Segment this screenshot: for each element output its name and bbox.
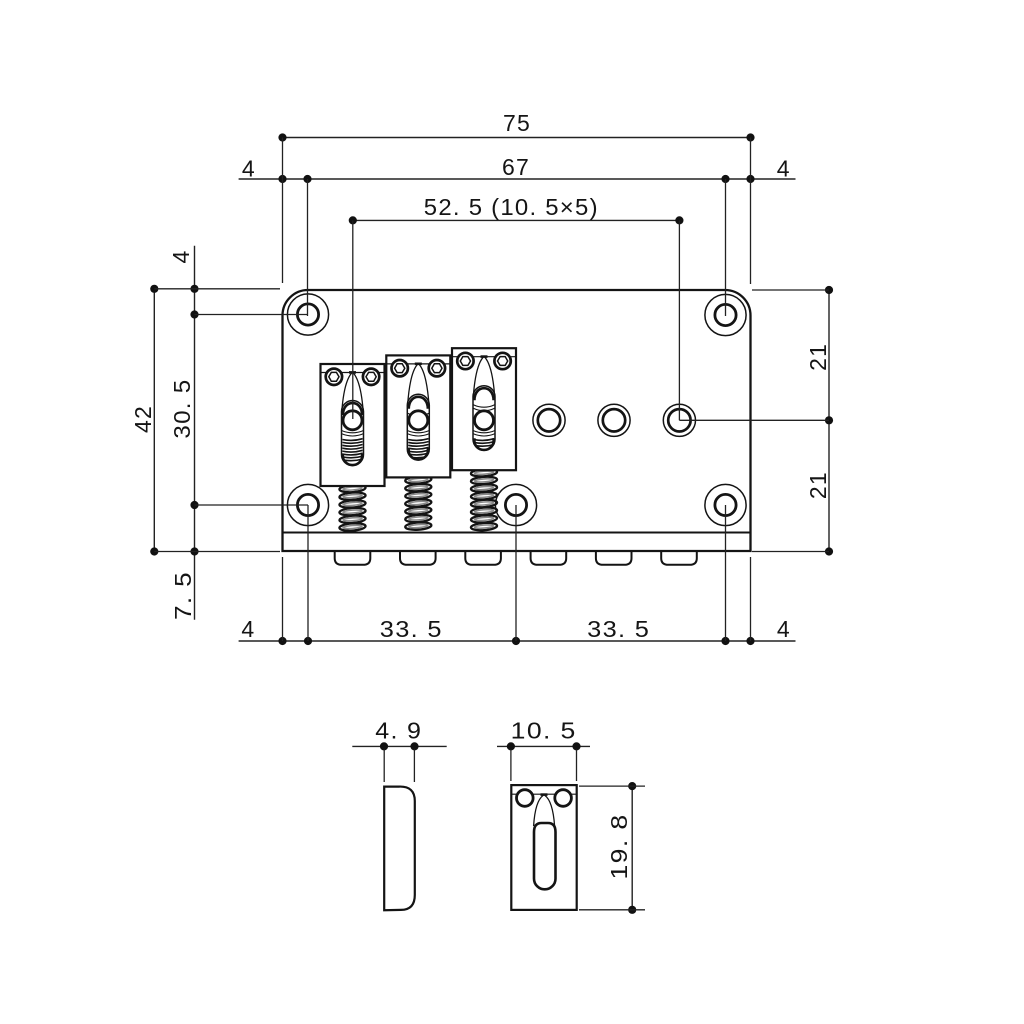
- svg-text:19. 8: 19. 8: [606, 814, 632, 880]
- dim line 4.9: [352, 745, 446, 747]
- extension hole BR down: [725, 505, 727, 641]
- string-through hole 4: [533, 404, 565, 436]
- extension string 1: [352, 220, 354, 419]
- extension hole BM down: [515, 505, 517, 641]
- stub 19.8 top: [579, 785, 645, 787]
- string-through hole 6: [663, 404, 695, 436]
- svg-text:4: 4: [777, 616, 791, 642]
- stub 19.8 bottom: [579, 909, 645, 911]
- mounting hole bottom-left: [287, 484, 328, 525]
- mounting hole top-right: [705, 294, 746, 335]
- top view inner line: [511, 793, 576, 795]
- dim line 42: [153, 289, 155, 552]
- connector hole BL: [195, 504, 309, 506]
- dim line 10.5: [497, 745, 590, 747]
- extension right edge top: [750, 138, 752, 285]
- extension top-view left: [510, 750, 512, 782]
- svg-text:4: 4: [242, 156, 256, 182]
- svg-text:4: 4: [241, 616, 255, 642]
- string-through hole 5: [598, 404, 630, 436]
- top view screw circles: [517, 790, 534, 807]
- dim line 67 with 4 offsets: [239, 178, 796, 180]
- saddle block 2: [386, 355, 450, 477]
- top view arch: [534, 795, 555, 826]
- mounting hole bottom-middle: [495, 484, 536, 525]
- saddle spring 1: [339, 484, 366, 532]
- svg-text:4: 4: [777, 156, 791, 182]
- svg-text:75: 75: [503, 110, 531, 136]
- plate bend line: [283, 532, 751, 534]
- string slot 2: [400, 552, 436, 565]
- svg-text:21: 21: [805, 471, 831, 499]
- saddle spring 2: [405, 475, 432, 530]
- extension left edge down: [282, 557, 284, 641]
- svg-text:10. 5: 10. 5: [511, 718, 577, 744]
- connector plate top-left: [154, 288, 280, 290]
- extension left edge top: [282, 138, 284, 284]
- connector plate top-right: [752, 289, 829, 291]
- string slot 6: [661, 552, 697, 565]
- svg-text:42: 42: [130, 405, 156, 433]
- saddle block 1: [321, 364, 385, 486]
- bottom dim line 4 / 33.5 / 33.5 / 4: [239, 640, 796, 642]
- dim line 52.5: [353, 219, 680, 221]
- extension side-view left: [383, 750, 385, 783]
- mounting hole top-left: [287, 294, 328, 335]
- extension hole TL: [307, 179, 309, 316]
- string slot 3: [465, 552, 501, 565]
- svg-text:7. 5: 7. 5: [170, 571, 196, 620]
- extension side-view right: [413, 750, 415, 783]
- svg-text:67: 67: [502, 154, 530, 180]
- top view arch tick: [541, 793, 548, 796]
- bridge base plate outline: [283, 290, 751, 551]
- extension hole BL down: [307, 505, 309, 641]
- string slot 4: [531, 552, 567, 565]
- string slot 1: [335, 552, 371, 565]
- extension right edge down: [750, 557, 752, 641]
- dim line 19.8: [631, 786, 633, 910]
- extension hole TR: [725, 179, 727, 316]
- saddle block 3: [452, 348, 516, 470]
- connector hole TL: [195, 314, 309, 316]
- svg-text:33. 5: 33. 5: [380, 616, 443, 642]
- saddle spring 3: [471, 468, 498, 531]
- connector plate bottom-left: [154, 551, 280, 553]
- svg-text:33. 5: 33. 5: [587, 616, 650, 642]
- dim line 75: [283, 137, 751, 139]
- svg-text:4. 9: 4. 9: [375, 718, 422, 744]
- svg-text:30. 5: 30. 5: [169, 379, 195, 439]
- detail top view of saddle: [511, 785, 576, 910]
- string slot 5: [596, 552, 632, 565]
- extension string 6: [678, 220, 680, 420]
- svg-text:4: 4: [168, 250, 194, 264]
- svg-text:52. 5 (10. 5×5): 52. 5 (10. 5×5): [424, 194, 599, 220]
- connector hole mid-right: [679, 419, 829, 421]
- connector plate bottom-right: [752, 551, 829, 553]
- extension top-view right: [576, 750, 578, 782]
- mounting hole bottom-right: [705, 484, 746, 525]
- svg-text:21: 21: [805, 343, 831, 371]
- dim line 4 / 30.5 / 7.5: [194, 246, 196, 620]
- top view slot: [534, 823, 556, 889]
- detail side view of saddle: [384, 787, 415, 911]
- dim line 21 / 21: [828, 290, 830, 552]
